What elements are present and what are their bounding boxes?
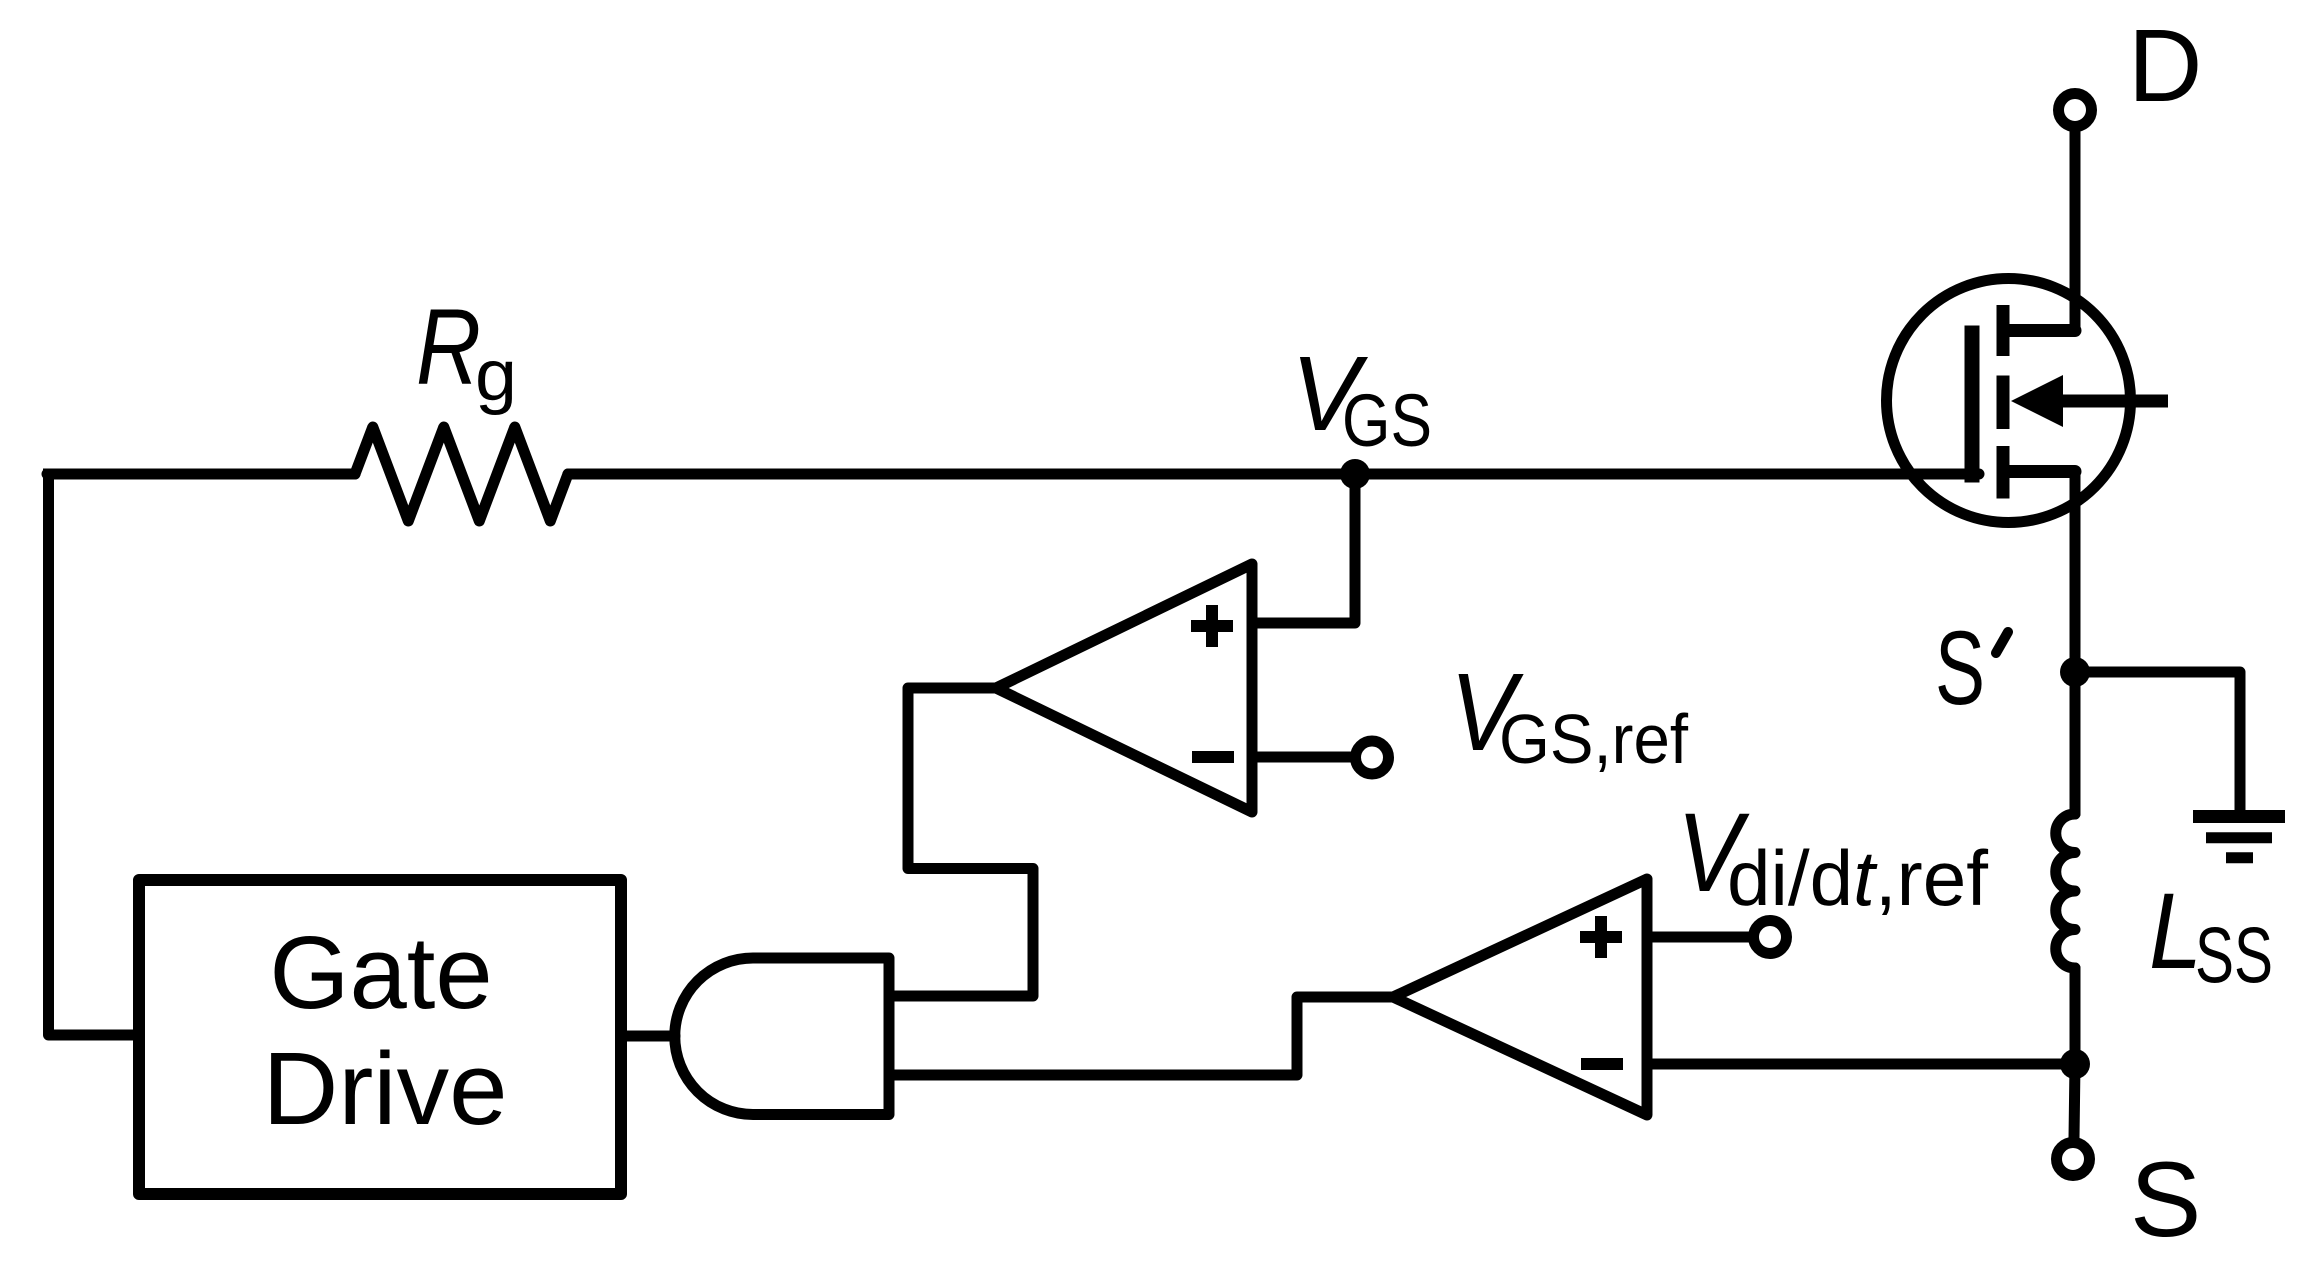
label VGS,ref (1450, 651, 1689, 778)
wire: VGS node down to comparator U1 + input (1252, 474, 1355, 623)
MOSFET Q1 channel bar (body) (1997, 376, 2010, 430)
label LSS (2149, 870, 2273, 999)
resistor Rg (355, 427, 568, 521)
node VGS (junction dot) (1340, 459, 1370, 489)
terminal S (open circle) (2057, 1143, 2090, 1176)
wire: comparator U2 - input to source sense node (1647, 1059, 2075, 1070)
comparator U2 minus sign (1581, 1058, 1623, 1070)
svg-text:S: S (1935, 610, 1985, 727)
MOSFET Q1 channel bar (drain) (1997, 305, 2010, 356)
label Vdi/dt,ref (1677, 790, 1988, 922)
comparator U1 plus sign (1191, 605, 1233, 647)
comparator U1 triangle (points left) (996, 564, 1252, 812)
label Gate Drive (263, 915, 508, 1146)
svg-text:R: R (416, 286, 481, 407)
wire: left feedback rail from gate wire down to Gate Drive input (49, 474, 134, 1035)
terminal VGS,ref (open circle) (1356, 741, 1389, 774)
node S junction (dot) (2060, 1049, 2090, 1079)
MOSFET Q1 channel bar (source) (1997, 446, 2010, 499)
label VGS (1291, 335, 1432, 462)
MOSFET Q1 body arrow (2011, 375, 2063, 427)
terminal D (open circle) (2059, 94, 2092, 127)
wire: S' to ground branch (2075, 672, 2240, 816)
svg-text:Drive: Drive (263, 1031, 508, 1146)
comparator U2 triangle (points left) (1393, 879, 1647, 1115)
wire: AND gate output to Gate Drive (627, 1031, 675, 1042)
label S' (1935, 610, 2008, 727)
wire: top gate wire, left segment to resistor (47, 469, 355, 480)
MOSFET Q1 gate bar (1965, 326, 1980, 483)
svg-text:D: D (2128, 8, 2202, 123)
wire: comparator U2 output to AND gate bottom input (894, 997, 1393, 1075)
wire: comparator U2 + input stub (1647, 932, 1749, 943)
wire: source down to inductor (2070, 472, 2081, 815)
terminal Vdi/dt,ref (open circle) (1754, 921, 1787, 954)
comparator U1 minus sign (1192, 751, 1234, 763)
MOSFET Q1 source tab (2003, 465, 2075, 478)
MOSFET Q1 drain tab (2003, 324, 2075, 337)
svg-text:Gate: Gate (269, 915, 492, 1030)
wire: inductor to S node (2070, 968, 2081, 1064)
wire: drain up to terminal D (2070, 131, 2081, 331)
MOSFET Q1 body circle (1887, 279, 2131, 523)
wire: comparator U1 - input stub (1252, 752, 1351, 763)
node S' (junction dot) (2060, 657, 2090, 687)
svg-text:GS,ref: GS,ref (1499, 700, 1689, 778)
wire: comparator U1 output to AND gate top input (894, 688, 1033, 996)
wire: resistor to MOSFET gate (568, 469, 1979, 480)
svg-text:di/dt,ref: di/dt,ref (1727, 834, 1988, 922)
svg-text:GS: GS (1342, 379, 1432, 462)
ground symbol (2193, 810, 2285, 823)
inductor LSS (2056, 814, 2075, 968)
AND gate (mirrored, output on left) (675, 958, 889, 1115)
svg-text:SS: SS (2195, 910, 2273, 999)
Gate Drive block (139, 880, 621, 1194)
comparator U2 plus sign (1580, 916, 1622, 958)
svg-text:S: S (2130, 1139, 2201, 1259)
MOSFET Q1 body line (2045, 395, 2168, 408)
wire: S node down to terminal S (2074, 1064, 2075, 1138)
label Rg (416, 286, 517, 416)
svg-text:g: g (475, 336, 517, 416)
